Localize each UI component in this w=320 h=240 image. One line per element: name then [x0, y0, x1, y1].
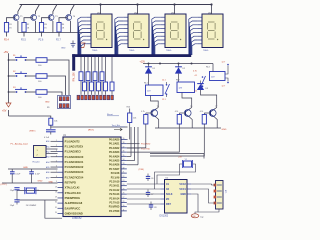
connector J2 (2x3) [58, 96, 71, 109]
svg-text:P2.1/A9: P2.1/A9 [111, 176, 120, 179]
svg-text:P2.6/A14: P2.6/A14 [109, 197, 120, 200]
digit 8 of DS3 [170, 22, 178, 39]
decimal point DS1 [106, 39, 107, 40]
svg-text:P0.5/AD5: P0.5/AD5 [109, 160, 120, 163]
pin 2 DS3 [160, 20, 165, 22]
pin 5 DS4 [197, 31, 202, 33]
wire Q4 collector down [69, 21, 71, 33]
wire XTAL1 [17, 189, 58, 191]
resistor RN1 [80, 57, 82, 72]
wire U1 pin 3 [51, 151, 58, 153]
svg-text:28: 28 [123, 201, 125, 203]
pin 11 U1 P3.1/TXD [121, 210, 127, 212]
pin 35 U1 P0.4/AD4 [121, 155, 127, 157]
wire Q3 collector down [52, 21, 54, 33]
svg-text:P2.4: P2.4 [4, 40, 9, 42]
wire RL1 bottom to Q5 [151, 96, 159, 108]
pin 3 DS4 [197, 24, 202, 26]
resistor R9 (reset pull-up) [49, 118, 53, 125]
svg-text:D1: D1 [153, 68, 155, 70]
svg-text:18: 18 [55, 191, 57, 193]
IC U2 DS1302 body [165, 180, 188, 214]
svg-text:GND: GND [61, 48, 66, 50]
wire Q6 emitter to GND rail [190, 117, 193, 128]
resistor R3 (base) [39, 23, 43, 33]
wire U1 pin 8 [51, 176, 58, 178]
svg-text:Cap: Cap [200, 217, 203, 219]
junction DS1 rail [99, 3, 101, 5]
wire S2 to resistor [26, 75, 37, 77]
wire D3/RL3 to Q7 [201, 90, 217, 108]
svg-text:4.7k: 4.7k [141, 111, 144, 113]
svg-text:24: 24 [123, 184, 125, 186]
pin 8 DS1 [86, 43, 91, 45]
svg-text:29: 29 [55, 197, 57, 199]
svg-text:I/O: I/O [166, 198, 169, 201]
svg-text:P3.0/RXD: P3.0/RXD [109, 206, 120, 209]
svg-text:ALE/PROG/A8: ALE/PROG/A8 [65, 201, 83, 205]
svg-text:AN6: AN6 [46, 171, 50, 174]
wire RS1 to connector [47, 60, 69, 95]
display DS2 body (7-segment) [128, 14, 149, 48]
svg-text:R2: R2 [27, 24, 29, 26]
wire Q7 emitter to GND rail [215, 117, 218, 128]
crystal X1 [26, 188, 34, 193]
pin 7 DS3 [160, 39, 165, 41]
pin 19 U1 XTAL1/CLKI [58, 187, 64, 189]
svg-text:0.1uF: 0.1uF [15, 173, 21, 175]
arrow annotation [114, 128, 122, 131]
svg-text:32: 32 [123, 167, 125, 169]
pin 23 U1 P2.2/A10 [121, 181, 127, 183]
wire Q6 collector [190, 108, 192, 109]
wire +12V rail [143, 63, 213, 65]
svg-text:GND: GND [180, 193, 186, 196]
label GND oval (red) [191, 214, 199, 218]
svg-text:P3.1/TXD: P3.1/TXD [109, 210, 120, 213]
transistor Q7 (relay driver) [209, 110, 216, 117]
bus (segment lines) [72, 54, 191, 57]
svg-text:4.7k: 4.7k [193, 70, 197, 72]
svg-text:0.1uF: 0.1uF [35, 173, 41, 175]
wire Q4 emitter to VCC rail [70, 5, 74, 15]
svg-text:7SEG: 7SEG [203, 50, 209, 52]
svg-text:P1.3/AD3/CEX0: P1.3/AD3/CEX0 [65, 155, 84, 159]
svg-text:4.7k: 4.7k [175, 111, 178, 113]
svg-text:AN1: AN1 [46, 145, 50, 148]
svg-text:PSEN/PROG: PSEN/PROG [65, 196, 80, 200]
diode D1 [148, 63, 150, 65]
pin 18 U1 XTAL2/CLKO [58, 192, 64, 194]
pin 5 DS1 [86, 31, 91, 33]
pin 4 U1 P1.3/AD3/CEX0 [58, 156, 64, 158]
wire RS2 to connector [47, 76, 66, 95]
wire collector net horizontal [18, 32, 91, 34]
resistor RB7 (base) [204, 112, 210, 114]
wire battery to U2 [191, 184, 215, 185]
svg-text:12.7: 12.7 [222, 86, 226, 88]
battery BT1 [216, 181, 224, 210]
svg-text:7SEG: 7SEG [92, 50, 98, 52]
pin 9 U1 RST/VPD [58, 182, 64, 184]
capacitor C3 (reset) [46, 129, 51, 131]
pin 31 U1 EA/VPP/VCC [58, 207, 64, 209]
svg-text:P2.2/A10: P2.2/A10 [109, 181, 120, 184]
wire U2 SCLK to U1 [127, 193, 160, 195]
svg-text:P0.6/AD6: P0.6/AD6 [109, 164, 120, 167]
svg-text:AN2: AN2 [46, 151, 50, 154]
resistor RN9 [111, 57, 113, 82]
svg-text:Y1: Y1 [37, 190, 39, 192]
svg-text:P2.3/A11: P2.3/A11 [110, 185, 121, 188]
svg-text:D2: D2 [183, 68, 185, 70]
wire R2 to net P2.5 [23, 32, 25, 37]
svg-text:10: 10 [123, 205, 125, 207]
resistor RN2 [87, 57, 89, 72]
wire VCC rail (top) [20, 4, 212, 6]
svg-text:C8: C8 [154, 207, 156, 209]
pin 30 U1 ALE/PROG/A8 [58, 202, 64, 204]
wire R3 to net P2.6 [41, 32, 43, 37]
svg-text:P1.6/AD6/CEX3: P1.6/AD6/CEX3 [65, 170, 84, 174]
wire base of Q3 [42, 18, 50, 23]
pin 4 DS1 [86, 28, 91, 30]
pin 1 U1 P1.0/AD0/T2 [58, 140, 64, 142]
svg-text:GND/VSS/GND: GND/VSS/GND [65, 211, 83, 215]
svg-text:GND: GND [38, 181, 43, 183]
wire RST node [50, 125, 52, 129]
svg-text:20: 20 [55, 212, 57, 214]
resistor RN4 [101, 57, 103, 72]
wire RB5 to U1 [127, 124, 146, 148]
pin U2 VCC1 right [187, 188, 191, 190]
svg-text:EA/VPP/VCC: EA/VPP/VCC [65, 206, 81, 210]
svg-text:R4: R4 [62, 24, 64, 26]
pin 4 DS3 [160, 28, 165, 30]
wire RB6 to U1 [127, 124, 180, 152]
svg-text:XTAL2/CLKO: XTAL2/CLKO [65, 191, 81, 195]
svg-text:P2.5: P2.5 [21, 40, 26, 42]
pin U2 GND right [187, 193, 191, 195]
svg-text:(RST): (RST) [88, 129, 94, 131]
pin 2 DS1 [86, 20, 91, 22]
svg-text:AN3: AN3 [46, 156, 50, 159]
resistor RN8 [105, 57, 107, 82]
svg-text:RST/VPD: RST/VPD [65, 181, 76, 185]
pin 6 DS1 [86, 35, 91, 37]
svg-text:7SEG: 7SEG [166, 50, 172, 52]
svg-text:DS1302: DS1302 [160, 215, 169, 218]
svg-text:10k: 10k [54, 121, 57, 123]
pin U2 X2 [160, 188, 164, 190]
svg-text:P0.4/AD4: P0.4/AD4 [109, 155, 120, 158]
svg-text:12.1: 12.1 [162, 80, 166, 82]
pin 2 DS2 [123, 20, 128, 22]
pin 26 U1 P2.5/A13 [121, 193, 127, 195]
svg-text:P2.5/A13: P2.5/A13 [109, 193, 120, 196]
svg-text:27: 27 [123, 197, 125, 199]
pin 1 DS3 [160, 16, 165, 18]
svg-text:P3.1/TXD: P3.1/TXD [141, 148, 151, 150]
svg-text:37: 37 [123, 146, 125, 148]
capacitor C4 (crystal) [14, 187, 19, 189]
digit 8 of DS2 [133, 22, 141, 39]
transistor Q2 (display driver) [31, 15, 37, 21]
svg-text:R1: R1 [9, 24, 11, 26]
svg-text:+5V: +5V [2, 110, 7, 113]
svg-text:(VCC): (VCC) [1, 184, 7, 186]
wire U1 pin 1 [51, 140, 58, 142]
wire base of Q1 [7, 18, 15, 23]
wire U2 RST to U1 [127, 203, 160, 205]
svg-text:AN5: AN5 [46, 166, 50, 169]
svg-text:VCC2: VCC2 [179, 183, 186, 186]
pin 4 DS2 [123, 28, 128, 30]
svg-text:21: 21 [123, 172, 125, 174]
wire RB7 to U1 [150, 124, 204, 156]
pin U2 I/O [160, 198, 164, 200]
pin 1 DS2 [123, 16, 128, 18]
pin 22 U1 P2.1/A9 [121, 176, 127, 178]
relay RL1 coil [148, 74, 150, 85]
wire bundle vertical 3 [137, 127, 139, 165]
pin 8 DS3 [160, 43, 165, 45]
svg-text:7SEG: 7SEG [129, 50, 135, 52]
pin 34 U1 P0.5/AD5 [121, 160, 127, 162]
svg-text:4.7uF: 4.7uF [44, 137, 50, 139]
digit 8 of DS1 [96, 22, 104, 39]
wire U1 pin 7 [51, 171, 58, 173]
pin 6 U1 P1.5/AD5/CEX2 [58, 166, 64, 168]
power flag (red) [80, 43, 85, 48]
relay RL3 contacts right [225, 66, 228, 75]
pin 29 U1 PSEN/PROG [58, 197, 64, 199]
svg-text:39: 39 [123, 138, 125, 140]
svg-text:4.7k: 4.7k [200, 111, 203, 113]
svg-text:31: 31 [55, 207, 57, 209]
wire DS2 common anode to rail [137, 5, 139, 15]
svg-text:4.1: 4.1 [195, 91, 198, 93]
pin 39 U1 P0.0/AD0 [121, 139, 127, 141]
wire U1 pin 5 [51, 161, 58, 163]
resistor R2 (base) [22, 23, 26, 33]
wire base of Q2 [24, 18, 32, 23]
pin 38 U1 P0.1/AD1 [121, 143, 127, 145]
pin 6 DS2 [123, 35, 128, 37]
svg-text:11: 11 [123, 209, 125, 211]
digit 8 of DS4 [207, 22, 215, 39]
wire Q1 emitter to VCC rail [18, 5, 22, 15]
svg-text:33: 33 [123, 163, 125, 165]
svg-text:Tact_Rst: Tact_Rst [112, 124, 121, 127]
svg-text:P1.5/AD5/CEX2: P1.5/AD5/CEX2 [65, 165, 84, 169]
wire Y2 to U2 X1 [157, 164, 182, 184]
svg-text:AN7: AN7 [46, 176, 50, 179]
pin 32 U1 P0.7/AD7 [121, 168, 127, 170]
wire R1 to net P2.4 [6, 32, 8, 37]
pin 3 DS1 [86, 24, 91, 26]
pin 3 DS3 [160, 24, 165, 26]
svg-text:P0.0/AD0: P0.0/AD0 [109, 139, 120, 142]
pin 28 U1 P2.7/A15 [121, 202, 127, 204]
wire +5V rail (RTC) [150, 153, 204, 155]
pin 25 U1 P2.4/A12 [121, 189, 127, 191]
pin 6 DS3 [160, 35, 165, 37]
wire U2 X2 to U1 [127, 188, 160, 190]
resistor RS1 [36, 58, 47, 63]
diode D3 [200, 81, 202, 84]
ground (collector area) [71, 43, 76, 45]
pin 2 DS4 [197, 20, 202, 22]
svg-text:P0.1/AD1: P0.1/AD1 [109, 143, 120, 146]
svg-text:P2.7/A15: P2.7/A15 [109, 202, 120, 205]
pin U2 SCLK [160, 193, 164, 195]
wire Q2 collector down [34, 21, 36, 33]
switch S1 (push button) [9, 59, 16, 61]
wire base of Q4 [59, 18, 67, 23]
wire EA loop [45, 200, 62, 218]
pin 5 DS2 [123, 31, 128, 33]
wire Q2 emitter to VCC rail [35, 5, 39, 15]
pin 8 U1 P1.7/AD7/CEX4 [58, 176, 64, 178]
svg-text:P2.4/A12: P2.4/A12 [109, 189, 120, 192]
pin U2 RST [160, 203, 164, 205]
svg-text:P1.4/AD4/CEX1: P1.4/AD4/CEX1 [65, 160, 84, 164]
wire Q3 emitter to VCC rail [53, 5, 57, 15]
pin 7 DS4 [197, 39, 202, 41]
wire Q1 collector down [17, 21, 19, 33]
svg-text:(RST): (RST) [30, 131, 36, 133]
pin U2 X1 [160, 183, 164, 185]
svg-text:(T0N): (T0N) [139, 169, 145, 171]
resistor RN7 [98, 57, 100, 82]
transistor Q4 (display driver) [66, 15, 72, 21]
svg-text:19: 19 [55, 186, 57, 188]
pin 8 DS4 [197, 43, 202, 45]
decimal point DS4 [217, 39, 218, 40]
display DS4 body (7-segment) [202, 14, 223, 48]
capacitor C5 (crystal) [14, 199, 19, 201]
resistor R10 (pull-up) [129, 109, 131, 114]
transistor Q6 (relay driver) [184, 110, 191, 117]
pin 3 U1 P1.2/AD2/ECI [58, 151, 64, 153]
wire U2 I/O to U1 [127, 198, 160, 200]
svg-text:24.576MHZ: 24.576MHZ [26, 205, 37, 207]
junction DS3 rail [173, 3, 175, 5]
pin 27 U1 P2.6/A14 [121, 197, 127, 199]
wire U1 pin 2 [51, 145, 58, 147]
wire U2 GND [191, 194, 198, 214]
wire +5V to R9 [9, 116, 51, 118]
svg-text:SCLK: SCLK [166, 193, 173, 196]
pin 5 DS3 [160, 31, 165, 33]
wire R4 to net P2.7 [58, 32, 60, 37]
pin 1 DS1 [86, 16, 91, 18]
svg-text:P2.7: P2.7 [56, 40, 61, 42]
svg-text:C6: C6 [151, 178, 153, 180]
svg-text:34: 34 [123, 159, 125, 161]
pin 4 DS4 [197, 28, 202, 30]
pin 3 DS2 [123, 24, 128, 26]
wire U1 pin 4 [51, 156, 58, 158]
relay RL2 contact [202, 76, 204, 78]
resistor RB6 (base) [179, 112, 185, 114]
svg-text:GND: GND [49, 181, 54, 183]
pin 2 U1 P1.1/AD1/T2EX [58, 145, 64, 147]
wire DS3 common anode to rail [174, 5, 176, 15]
svg-text:RST: RST [166, 203, 171, 206]
svg-text:38: 38 [123, 142, 125, 144]
wire R10 down [129, 123, 131, 140]
crystal Y2 (32.768kHz) [184, 161, 192, 167]
svg-text:4.1: 4.1 [195, 75, 198, 77]
svg-text:D3: D3 [206, 88, 208, 90]
pin 7 DS1 [86, 39, 91, 41]
connector J4 header [34, 146, 47, 158]
decimal point DS2 [143, 39, 144, 40]
wire bundle vertical 1 [130, 127, 132, 156]
svg-text:23: 23 [123, 180, 125, 182]
svg-text:Header: Header [33, 161, 40, 164]
svg-text:35: 35 [123, 155, 125, 157]
wire Y2 to U2 X2 [155, 164, 196, 189]
svg-text:25: 25 [123, 188, 125, 190]
capacitor C2 (decoupling) [31, 169, 33, 172]
pin 37 U1 P0.2/AD2 [121, 147, 127, 149]
connector J3 (SIP strip) [77, 95, 80, 100]
resistor RN6 [91, 57, 93, 82]
svg-text:+5V: +5V [4, 50, 9, 54]
bus vertical entry [72, 54, 75, 70]
pin 7 DS2 [123, 39, 128, 41]
junction DS4 rail [210, 3, 212, 5]
svg-text:XTAL1/CLKI: XTAL1/CLKI [65, 186, 80, 190]
wire U2 X1 to U1 [127, 183, 160, 185]
svg-text:P1.7/AD7/CEX4: P1.7/AD7/CEX4 [65, 175, 84, 179]
svg-text:26: 26 [123, 193, 125, 195]
resistor R4 (base) [57, 23, 61, 33]
relay RL1 contact [166, 82, 168, 84]
decimal point DS3 [180, 39, 181, 40]
junction dots rail [159, 63, 161, 65]
wire header to U1 [46, 148, 58, 150]
svg-text:P1.0/AD0/T2: P1.0/AD0/T2 [65, 139, 81, 143]
pin 36 U1 P0.3/AD3 [121, 151, 127, 153]
svg-text:12.7: 12.7 [222, 62, 226, 64]
display DS3 body (7-segment) [165, 14, 186, 48]
capacitor C6 [147, 174, 149, 177]
IC U1 AT89C52 body [63, 137, 121, 217]
wire RL2 bottom to Q6 [182, 93, 192, 108]
svg-text:P1.2/AD2/ECI: P1.2/AD2/ECI [65, 150, 82, 154]
svg-text:R9: R9 [47, 107, 49, 109]
wire XTAL2 [17, 199, 58, 201]
transistor Q5 (relay driver) [151, 110, 158, 117]
capacitor C7 [147, 190, 149, 193]
svg-text:P0.2/AD2: P0.2/AD2 [109, 147, 120, 150]
svg-text:P2.0/A8: P2.0/A8 [111, 172, 120, 175]
wire bundle vertical 2 [134, 127, 136, 161]
resistor R1 (base) [4, 23, 8, 33]
svg-text:22: 22 [123, 176, 125, 178]
svg-text:36: 36 [123, 151, 125, 153]
pin 6 DS4 [197, 35, 202, 37]
svg-text:GND: GND [222, 129, 227, 131]
pin 1 DS4 [197, 16, 202, 18]
wire DS1 common anode to rail [100, 5, 102, 15]
pin 7 U1 P1.6/AD6/CEX3 [58, 171, 64, 173]
wire Q5 emitter to GND rail [156, 117, 159, 128]
